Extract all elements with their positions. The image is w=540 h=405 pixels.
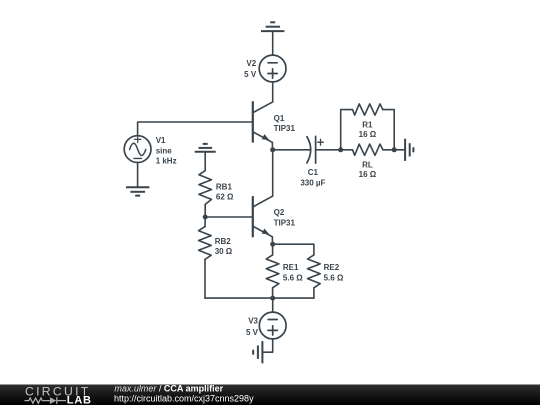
svg-text:V3: V3 bbox=[248, 317, 258, 326]
svg-text:5 V: 5 V bbox=[244, 70, 257, 79]
svg-text:RE1: RE1 bbox=[283, 263, 299, 272]
resistor RB2 30ohm bbox=[199, 227, 233, 260]
resistor RE1 5.6ohm bbox=[266, 255, 303, 288]
voltage source V3 5V bbox=[246, 312, 286, 339]
wire RE1 to node F bbox=[272, 288, 274, 298]
svg-text:30 Ω: 30 Ω bbox=[215, 247, 233, 256]
svg-text:RB2: RB2 bbox=[215, 237, 232, 246]
resistor RE2 5.6ohm bbox=[308, 255, 344, 288]
svg-text:TIP31: TIP31 bbox=[274, 218, 296, 227]
ground GND-top above V2 bbox=[261, 22, 284, 31]
wire node E to RE1 bbox=[272, 244, 274, 255]
resistor RB1 62ohm bbox=[199, 171, 234, 205]
wire node F to V3 bbox=[272, 298, 274, 312]
node D bbox=[203, 215, 208, 220]
svg-text:330 µF: 330 µF bbox=[300, 179, 325, 188]
node C bbox=[392, 147, 397, 152]
wire RL to node C bbox=[383, 149, 394, 151]
svg-text:62 Ω: 62 Ω bbox=[216, 192, 234, 201]
svg-text:RB1: RB1 bbox=[216, 182, 233, 191]
svg-text:Q1: Q1 bbox=[274, 114, 285, 123]
wire V3 to ground-bottom bbox=[262, 339, 272, 352]
node E bbox=[270, 242, 275, 247]
wire ground-mid to RB1 bbox=[204, 152, 206, 171]
voltage source V2 5V bbox=[244, 55, 286, 82]
svg-text:sine: sine bbox=[156, 147, 173, 156]
wire V2 to Q1 collector bbox=[272, 82, 274, 102]
wire node A to Q2 collector bbox=[272, 150, 274, 196]
svg-text:max.ulmer / CCA amplifier: max.ulmer / CCA amplifier bbox=[114, 383, 223, 393]
svg-text:16 Ω: 16 Ω bbox=[359, 170, 377, 179]
wire C1 to node B bbox=[316, 149, 341, 151]
wire node D to Q2 base bbox=[205, 216, 252, 218]
wire RE2 bottom to rail bbox=[313, 288, 315, 298]
wire Q2 emitter to node E bbox=[271, 237, 273, 245]
ground GND-mid above RB1 bbox=[195, 144, 216, 152]
svg-text:5 V: 5 V bbox=[246, 328, 259, 337]
svg-text:http://circuitlab.com/cxj37cnn: http://circuitlab.com/cxj37cnns298y bbox=[114, 393, 254, 403]
node B bbox=[338, 147, 343, 152]
bottom rail wire bbox=[205, 297, 314, 299]
wire ground-top to V2 bbox=[272, 31, 274, 55]
wire V1 to Q1 base bbox=[138, 122, 252, 136]
resistor R1 16ohm bbox=[353, 104, 383, 139]
svg-text:V1: V1 bbox=[156, 136, 166, 145]
wire node E to RE2 top bbox=[273, 244, 314, 255]
svg-text:LAB: LAB bbox=[67, 395, 92, 405]
voltage source V1 sine 1kHz bbox=[124, 136, 176, 166]
svg-text:V2: V2 bbox=[246, 59, 256, 68]
svg-text:Q2: Q2 bbox=[274, 208, 285, 217]
node A bbox=[270, 147, 275, 152]
wire node B up to R1 bbox=[341, 110, 353, 150]
wire RB2 to bottom rail bbox=[204, 259, 206, 298]
CircuitLab logo schematic squiggle bbox=[25, 397, 67, 404]
ground GND-bottom below V3 bbox=[253, 341, 262, 363]
wire node C to ground-right bbox=[394, 149, 405, 151]
resistor RL 16ohm bbox=[353, 144, 383, 179]
svg-text:TIP31: TIP31 bbox=[274, 124, 296, 133]
wire V1 to ground-left bbox=[137, 163, 139, 188]
wire node A to C1 bbox=[273, 149, 310, 151]
wire R1 to node C bbox=[383, 110, 394, 150]
capacitor C1 330uF bbox=[300, 136, 325, 187]
transistor Q2 TIP31 bbox=[253, 196, 296, 237]
svg-text:5.6 Ω: 5.6 Ω bbox=[283, 273, 303, 282]
ground GND-right bbox=[405, 139, 413, 161]
wire Q1 emitter to node A bbox=[271, 142, 273, 150]
svg-text:C1: C1 bbox=[308, 168, 319, 177]
ground GND-left below V1 bbox=[126, 187, 149, 195]
svg-text:1 kHz: 1 kHz bbox=[156, 157, 177, 166]
wire RB1 to node D bbox=[204, 204, 206, 217]
svg-text:5.6 Ω: 5.6 Ω bbox=[324, 273, 344, 282]
node F bbox=[270, 296, 275, 301]
svg-text:R1: R1 bbox=[362, 121, 373, 130]
wire node D to RB2 bbox=[204, 217, 206, 227]
svg-text:RL: RL bbox=[362, 160, 373, 169]
svg-text:16 Ω: 16 Ω bbox=[359, 130, 377, 139]
svg-text:RE2: RE2 bbox=[324, 263, 340, 272]
transistor Q1 TIP31 bbox=[253, 102, 296, 142]
wire node B to RL bbox=[341, 149, 353, 151]
